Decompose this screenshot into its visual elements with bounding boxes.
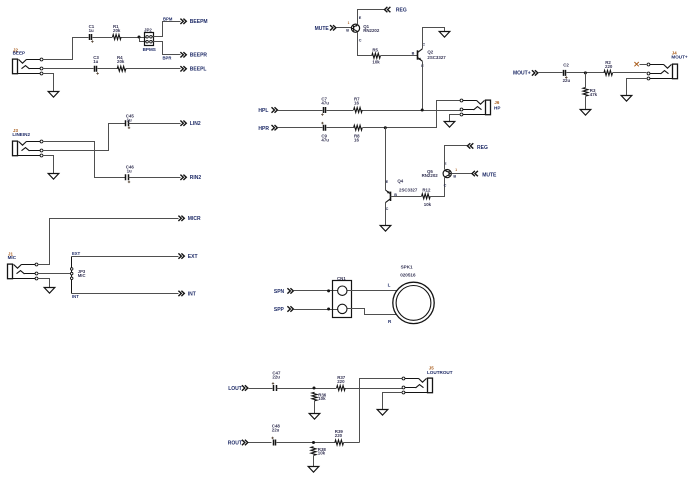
svg-text:MOUT+: MOUT+ [513, 71, 531, 77]
junction [313, 387, 316, 390]
capacitor C46 1u [126, 164, 135, 183]
svg-text:JP2: JP2 [144, 28, 152, 33]
ground [44, 288, 55, 294]
wire [43, 68, 94, 70]
svg-text:B: B [346, 28, 349, 32]
svg-text:Q4: Q4 [397, 178, 403, 183]
svg-text:BPM: BPM [163, 16, 173, 21]
wire [327, 110, 354, 112]
wire node EXT [72, 256, 179, 258]
ground [380, 226, 391, 232]
wire [452, 173, 472, 175]
junction [327, 308, 330, 311]
net arrow REG [467, 143, 488, 151]
svg-text:BPMS: BPMS [143, 47, 156, 52]
svg-text:10k: 10k [424, 202, 432, 207]
wire node BPR [153, 42, 181, 55]
wire L [348, 290, 397, 292]
svg-text:REG: REG [396, 8, 407, 14]
wire [38, 219, 179, 265]
net arrow HPL input [258, 107, 277, 114]
wire node BPM [153, 22, 181, 37]
resistor R5 10k [372, 48, 381, 65]
speaker SPK1 020516 [393, 264, 434, 323]
net arrow SPN input [274, 288, 293, 295]
wire [98, 68, 118, 70]
wire [385, 203, 387, 226]
svg-text:SPN: SPN [274, 289, 285, 295]
svg-text:L: L [388, 283, 391, 288]
wire [344, 442, 360, 444]
capacitor C48 22u [271, 424, 280, 446]
svg-text:MIC: MIC [78, 273, 86, 278]
wire [277, 442, 336, 444]
wire [445, 146, 468, 170]
svg-text:20k: 20k [113, 28, 121, 33]
svg-text:RN2202: RN2202 [363, 28, 380, 33]
svg-text:MOUT+: MOUT+ [671, 55, 688, 60]
wire [249, 442, 272, 444]
resistor R7 16 [354, 97, 363, 113]
svg-text:47u: 47u [321, 101, 329, 106]
svg-text:47k: 47k [590, 92, 598, 97]
junction [584, 71, 587, 74]
capacitor C9 47u [321, 122, 329, 143]
ground [309, 414, 320, 420]
net arrow MICR [178, 216, 201, 223]
svg-text:BEEP: BEEP [13, 50, 26, 55]
svg-text:ROUT: ROUT [228, 441, 242, 447]
wire [314, 388, 316, 390]
wire [314, 401, 316, 414]
net arrow LOUT input [228, 385, 248, 392]
net arrow REG [385, 7, 407, 14]
svg-text:MIC: MIC [8, 255, 17, 260]
junction Q2 emitter [421, 109, 424, 112]
ground [48, 174, 59, 180]
wire ROUT riser [360, 379, 403, 443]
resistor R1 20k [113, 24, 122, 39]
net arrow RIN2 [180, 175, 201, 182]
capacitor C1 1u [89, 24, 95, 43]
wire [126, 68, 181, 70]
svg-text:2SC3327: 2SC3327 [427, 55, 446, 60]
svg-text:MUTE: MUTE [482, 172, 497, 178]
net arrow LIN2 [180, 121, 200, 128]
wire [294, 309, 338, 311]
wire [640, 64, 647, 66]
wire [93, 37, 113, 39]
svg-text:020516: 020516 [400, 272, 416, 277]
svg-text:1: 1 [455, 168, 457, 172]
jack J6 HP [460, 99, 500, 116]
svg-text:BEEPM: BEEPM [190, 19, 208, 25]
wire [38, 273, 71, 275]
wire [385, 128, 387, 182]
jack J1 MIC [8, 252, 38, 280]
resistor R39 220 [335, 429, 344, 445]
header JP2 BPMS [143, 28, 156, 52]
svg-text:HPR: HPR [258, 126, 269, 132]
wire [278, 127, 323, 129]
wire [422, 62, 424, 111]
svg-text:2SC3327: 2SC3327 [399, 188, 418, 193]
resistor R3 47k [583, 88, 598, 97]
wire [585, 73, 587, 88]
wire [294, 290, 338, 292]
svg-text:BEEPL: BEEPL [190, 67, 207, 73]
ground [48, 92, 59, 98]
net arrow BEEPL [180, 66, 206, 73]
junction [327, 289, 330, 292]
svg-text:C2: C2 [563, 62, 569, 67]
resistor R4 20k [117, 55, 126, 71]
wire [43, 124, 126, 151]
resistor R12 10k [422, 187, 432, 207]
header JP3 MIC [70, 257, 85, 294]
wire [313, 456, 315, 467]
svg-text:MUTE: MUTE [315, 26, 330, 32]
svg-text:B: B [453, 174, 456, 178]
ground [308, 467, 319, 473]
resistor R38 10k [311, 447, 326, 456]
ground [439, 32, 450, 38]
svg-text:B: B [412, 52, 415, 56]
wire [381, 55, 418, 57]
wire [43, 38, 89, 60]
wire [385, 182, 387, 191]
wire [346, 388, 403, 390]
svg-text:E: E [386, 180, 389, 184]
connector CN1 [333, 276, 352, 318]
svg-text:16: 16 [354, 138, 359, 143]
junction [312, 441, 315, 444]
wire [122, 37, 146, 39]
transistor Q5 RN2202 [422, 162, 458, 187]
wire [337, 27, 352, 29]
svg-text:SPK1: SPK1 [401, 264, 413, 269]
wire [327, 127, 354, 129]
svg-text:10k: 10k [318, 396, 326, 401]
resistor R37 220 [337, 375, 346, 390]
svg-text:REG: REG [477, 145, 488, 151]
capacitor C7 47u [321, 97, 329, 116]
wire [363, 101, 461, 128]
ground [621, 96, 632, 102]
svg-text:10k: 10k [372, 60, 380, 65]
transistor Q2 2SC3327 [412, 42, 447, 68]
ground [377, 410, 388, 416]
svg-text:HP: HP [494, 106, 500, 111]
net arrow BEEPR [180, 52, 207, 59]
svg-text:LINEIN2: LINEIN2 [12, 132, 30, 137]
resistor R2 220 [604, 60, 613, 75]
net arrow BEEPM [180, 19, 207, 26]
wire [383, 393, 403, 410]
svg-text:C: C [444, 184, 447, 188]
wire R [348, 309, 397, 315]
svg-text:220: 220 [335, 433, 343, 438]
wire node INT [72, 293, 179, 295]
net arrow MOUT+ input [513, 70, 538, 77]
net arrow ROUT input [228, 440, 248, 447]
wire [423, 28, 445, 49]
svg-text:22u: 22u [272, 375, 280, 380]
wire [277, 388, 337, 390]
svg-text:CN1: CN1 [337, 276, 346, 281]
wire [129, 177, 181, 179]
wire [567, 72, 604, 74]
svg-text:LOUT: LOUT [228, 386, 242, 392]
svg-text:1u: 1u [127, 117, 132, 122]
net arrow MUTE [472, 171, 497, 179]
svg-text:16: 16 [354, 101, 359, 106]
svg-text:1: 1 [348, 21, 350, 25]
wire [391, 196, 422, 198]
wire [585, 97, 587, 110]
wire [129, 123, 181, 125]
svg-text:LOUTROUT: LOUTROUT [427, 370, 453, 375]
capacitor C3 1u [93, 55, 99, 74]
svg-text:MICR: MICR [188, 216, 201, 222]
capacitor C2 22u [563, 62, 571, 83]
svg-text:EXT: EXT [72, 251, 81, 256]
svg-text:47u: 47u [321, 138, 329, 143]
wire [627, 79, 647, 96]
svg-text:R5: R5 [372, 48, 378, 53]
svg-text:1u: 1u [127, 169, 132, 174]
svg-text:220: 220 [337, 379, 345, 384]
wire [43, 156, 54, 174]
resistor R8 16 [354, 125, 363, 142]
svg-text:C: C [386, 207, 389, 211]
svg-text:BEEPR: BEEPR [190, 53, 208, 59]
svg-text:EXT: EXT [188, 254, 198, 260]
net arrow HPR input [258, 125, 277, 132]
svg-text:R12: R12 [422, 187, 431, 192]
wire [140, 38, 146, 42]
wire [278, 110, 323, 112]
wire [450, 115, 461, 122]
jack J2 BEEP [13, 47, 43, 75]
capacitor C45 1u [126, 113, 135, 129]
ground [444, 122, 455, 128]
wire [539, 72, 563, 74]
net arrow INT [178, 291, 195, 298]
capacitor C47 22u [272, 371, 281, 391]
jack J3 LINEIN2 [12, 128, 42, 157]
transistor Q1 RN2202 [346, 16, 380, 43]
svg-text:10k: 10k [318, 451, 326, 456]
svg-text:J6: J6 [494, 100, 499, 105]
svg-text:Q2: Q2 [427, 49, 433, 54]
net arrow MUTE input [315, 25, 336, 32]
wire [43, 74, 54, 92]
svg-text:22u: 22u [563, 78, 571, 83]
net arrow EXT [178, 253, 197, 260]
svg-text:INT: INT [72, 294, 79, 299]
svg-text:20k: 20k [117, 59, 125, 64]
svg-text:1u: 1u [93, 59, 98, 64]
svg-text:SPP: SPP [274, 307, 285, 313]
no-connect X [634, 62, 638, 66]
svg-text:220: 220 [605, 64, 613, 69]
wire [358, 33, 372, 56]
wire [613, 72, 647, 74]
wire [358, 10, 385, 25]
junction to Q4 [384, 126, 387, 129]
wire [43, 142, 126, 178]
svg-text:RN2202: RN2202 [422, 173, 439, 178]
svg-text:LIN2: LIN2 [190, 121, 201, 127]
svg-text:INT: INT [188, 291, 196, 297]
wire [363, 110, 461, 112]
wire [38, 279, 50, 288]
transistor Q4 2SC3327 [386, 178, 418, 211]
resistor R36 10k [312, 392, 327, 401]
svg-text:22u: 22u [272, 428, 280, 433]
net arrow SPP input [274, 306, 293, 313]
svg-text:C: C [359, 39, 362, 43]
svg-text:1u: 1u [89, 28, 94, 33]
ground [580, 110, 591, 116]
svg-text:HPL: HPL [258, 108, 268, 114]
svg-text:RIN2: RIN2 [190, 175, 202, 181]
wire [431, 178, 445, 197]
jack J5 LOUTROUT [402, 366, 453, 394]
svg-text:BPR: BPR [163, 55, 172, 60]
wire [249, 388, 273, 390]
junction [138, 36, 141, 39]
jack J4 MOUT+ [647, 50, 688, 80]
